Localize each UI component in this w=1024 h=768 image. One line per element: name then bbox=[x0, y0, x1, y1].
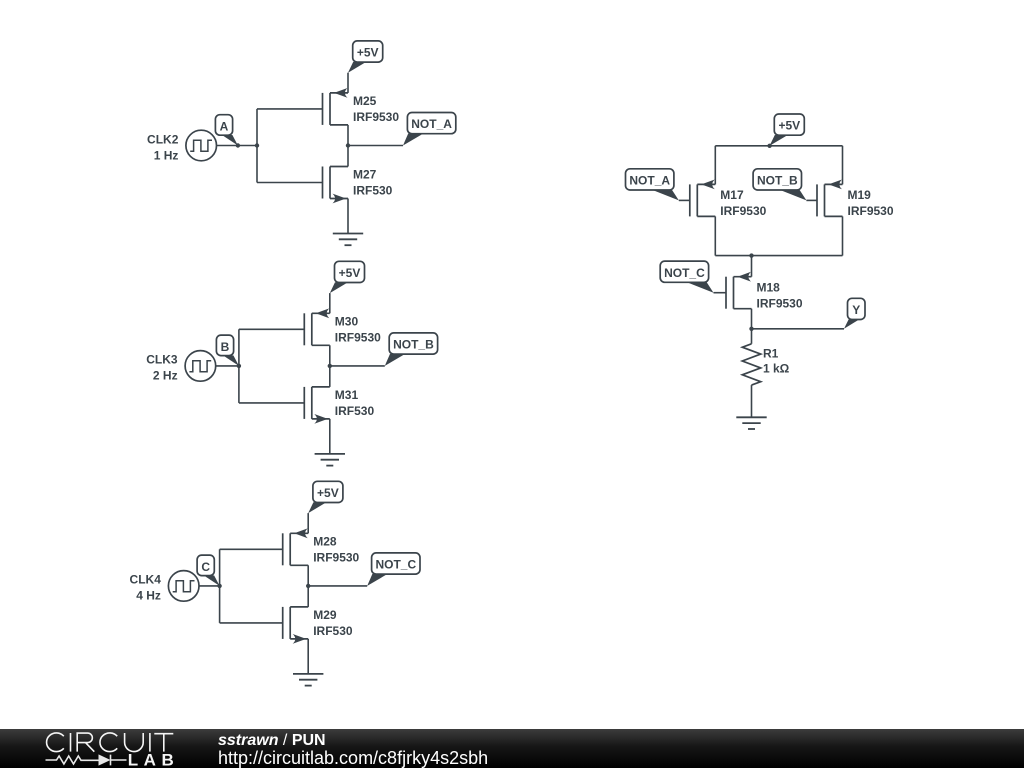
wire PMOS source to +5V bbox=[347, 73, 349, 93]
svg-text:M30: M30 bbox=[335, 314, 359, 328]
ground bbox=[736, 417, 766, 429]
svg-text:4 Hz: 4 Hz bbox=[136, 589, 161, 603]
svg-text:A: A bbox=[220, 119, 229, 133]
svg-text:2 Hz: 2 Hz bbox=[153, 369, 178, 383]
svg-text:M17: M17 bbox=[720, 188, 744, 202]
power flag +5V bbox=[348, 41, 383, 73]
svg-text:NOT_A: NOT_A bbox=[629, 174, 670, 188]
net flag C bbox=[197, 555, 220, 586]
power flag +5V bbox=[330, 261, 365, 293]
power flag +5V bbox=[770, 114, 805, 146]
svg-text:C: C bbox=[201, 560, 210, 574]
svg-text:NOT_B: NOT_B bbox=[757, 174, 798, 188]
wire to PMOS gate bbox=[239, 328, 304, 330]
transistor M19 (IRF9530) PMOS bbox=[817, 180, 894, 219]
voltage source CLK2 (1 Hz) bbox=[147, 130, 216, 162]
wire CLK3 output to gate bus bbox=[216, 365, 239, 367]
junction gate bus bbox=[255, 143, 259, 147]
ground bbox=[315, 454, 345, 466]
footer bar bbox=[0, 729, 1024, 768]
net flag NOT_B bbox=[753, 169, 806, 201]
svg-text:IRF9530: IRF9530 bbox=[353, 110, 399, 124]
svg-text:M27: M27 bbox=[353, 168, 377, 182]
ground bbox=[333, 234, 363, 246]
wire CLK4 output to gate bus bbox=[199, 585, 220, 587]
wire PMOS drain to output bbox=[347, 125, 349, 146]
resistor R1 (1 k&#937;) bbox=[742, 344, 789, 385]
svg-text:IRF530: IRF530 bbox=[353, 184, 393, 198]
wire NMOS source to ground bbox=[307, 639, 309, 674]
wire NMOS source to ground bbox=[347, 199, 349, 234]
net flag NOT_B bbox=[385, 333, 438, 366]
svg-text:NOT_B: NOT_B bbox=[393, 338, 434, 352]
wire output to NOT_B bbox=[330, 365, 385, 367]
svg-text:M19: M19 bbox=[848, 188, 872, 202]
junction mid rail bbox=[749, 253, 753, 257]
transistor M25 (IRF9530) PMOS bbox=[323, 88, 400, 125]
wire +5V top rail bbox=[715, 145, 842, 147]
wire output to NOT_A bbox=[348, 145, 403, 147]
svg-text:+5V: +5V bbox=[317, 486, 339, 500]
svg-text:M31: M31 bbox=[335, 388, 359, 402]
svg-text:http://circuitlab.com/c8fjrky4: http://circuitlab.com/c8fjrky4s2sbh bbox=[218, 748, 488, 768]
wire NOT_B to M19 gate bbox=[806, 199, 817, 201]
voltage source CLK3 (2 Hz) bbox=[146, 351, 215, 383]
wire NMOS source to ground bbox=[329, 419, 331, 454]
wire NMOS drain to output bbox=[307, 586, 309, 607]
net flag B bbox=[216, 335, 239, 366]
svg-text:IRF9530: IRF9530 bbox=[313, 550, 359, 564]
logo resistor-diode glyph bbox=[46, 755, 127, 766]
svg-text:R1: R1 bbox=[763, 347, 779, 361]
wire gate bus vertical bbox=[219, 549, 221, 623]
net flag A bbox=[215, 115, 238, 146]
wire to PMOS gate bbox=[220, 548, 283, 550]
wire mid rail to M18 source bbox=[751, 256, 753, 277]
svg-text:M28: M28 bbox=[313, 534, 337, 548]
voltage source CLK4 (4 Hz) bbox=[130, 571, 199, 603]
svg-text:Y: Y bbox=[852, 303, 860, 317]
junction output node bbox=[346, 143, 350, 147]
transistor M17 (IRF9530) PMOS bbox=[690, 180, 767, 219]
svg-text:IRF530: IRF530 bbox=[335, 404, 375, 418]
net flag NOT_A bbox=[626, 169, 679, 201]
junction node Y bbox=[749, 327, 753, 331]
svg-text:+5V: +5V bbox=[778, 119, 800, 133]
svg-text:IRF9530: IRF9530 bbox=[720, 204, 766, 218]
wire rail to M19 source bbox=[842, 146, 844, 185]
svg-text:IRF9530: IRF9530 bbox=[335, 330, 381, 344]
svg-text:+5V: +5V bbox=[357, 46, 379, 60]
transistor M18 (IRF9530) PMOS bbox=[726, 272, 803, 311]
svg-text:CLK2: CLK2 bbox=[147, 132, 179, 146]
junction gate bus bbox=[237, 364, 241, 368]
svg-text:NOT_C: NOT_C bbox=[664, 266, 705, 280]
wire output to NOT_C bbox=[308, 585, 367, 587]
wire M19 drain to mid rail bbox=[842, 216, 844, 255]
svg-text:LAB: LAB bbox=[128, 750, 179, 768]
junction output node bbox=[306, 584, 310, 588]
wire NMOS drain to output bbox=[347, 146, 349, 167]
net flag NOT_A bbox=[403, 113, 456, 146]
svg-text:CLK3: CLK3 bbox=[146, 353, 178, 367]
transistor M29 (IRF530) NMOS bbox=[283, 607, 353, 644]
svg-text:M25: M25 bbox=[353, 94, 377, 108]
wire PMOS drain to output bbox=[307, 565, 309, 586]
transistor M27 (IRF530) NMOS bbox=[323, 167, 393, 204]
net flag NOT_C bbox=[367, 553, 420, 586]
transistor M28 (IRF9530) PMOS bbox=[283, 528, 360, 565]
wire M17 drain to mid rail bbox=[714, 216, 716, 255]
wire R1 to ground bbox=[751, 385, 753, 417]
transistor M31 (IRF530) NMOS bbox=[304, 387, 374, 424]
net flag NOT_C bbox=[660, 261, 713, 293]
svg-text:NOT_C: NOT_C bbox=[375, 558, 416, 572]
transistor M30 (IRF9530) PMOS bbox=[304, 308, 381, 345]
wire M18 drain to node Y bbox=[751, 309, 753, 344]
wire to PMOS gate bbox=[257, 108, 323, 110]
junction +5V tap bbox=[767, 144, 771, 148]
svg-text:sstrawn / PUN: sstrawn / PUN bbox=[218, 732, 326, 749]
wire PMOS source to +5V bbox=[307, 513, 309, 533]
wire NOT_A to M17 gate bbox=[679, 199, 690, 201]
wire PMOS source to +5V bbox=[329, 293, 331, 313]
svg-text:B: B bbox=[221, 340, 230, 354]
node A flag tap bbox=[236, 143, 240, 147]
svg-text:IRF9530: IRF9530 bbox=[757, 297, 803, 311]
wire node Y to flag bbox=[752, 328, 845, 330]
svg-text:IRF530: IRF530 bbox=[313, 624, 353, 638]
wire mid rail bbox=[715, 255, 842, 257]
svg-text:1 Hz: 1 Hz bbox=[154, 148, 179, 162]
junction gate bus bbox=[217, 584, 221, 588]
svg-text:NOT_A: NOT_A bbox=[411, 117, 452, 131]
wire to NMOS gate bbox=[239, 402, 304, 404]
svg-text:M29: M29 bbox=[313, 608, 337, 622]
ground bbox=[293, 674, 323, 686]
wire rail to M17 source bbox=[714, 146, 716, 185]
svg-text:+5V: +5V bbox=[339, 266, 361, 280]
wire gate bus vertical bbox=[238, 329, 240, 403]
svg-text:CLK4: CLK4 bbox=[130, 573, 162, 587]
svg-text:1 kΩ: 1 kΩ bbox=[763, 361, 790, 375]
wire NOT_C to M18 gate bbox=[714, 292, 727, 294]
power flag +5V bbox=[308, 481, 343, 513]
wire to NMOS gate bbox=[220, 622, 283, 624]
wire CLK2 output to gate bus bbox=[217, 145, 258, 147]
wire NMOS drain to output bbox=[329, 366, 331, 387]
wire gate bus vertical bbox=[256, 109, 258, 183]
CircuitLab logo: CIRCUIT drawn as paths bbox=[47, 733, 174, 752]
junction output node bbox=[328, 364, 332, 368]
wire to NMOS gate bbox=[257, 182, 323, 184]
net flag Y bbox=[844, 298, 865, 329]
wire PMOS drain to output bbox=[329, 345, 331, 366]
svg-text:IRF9530: IRF9530 bbox=[848, 204, 894, 218]
svg-text:M18: M18 bbox=[757, 281, 781, 295]
